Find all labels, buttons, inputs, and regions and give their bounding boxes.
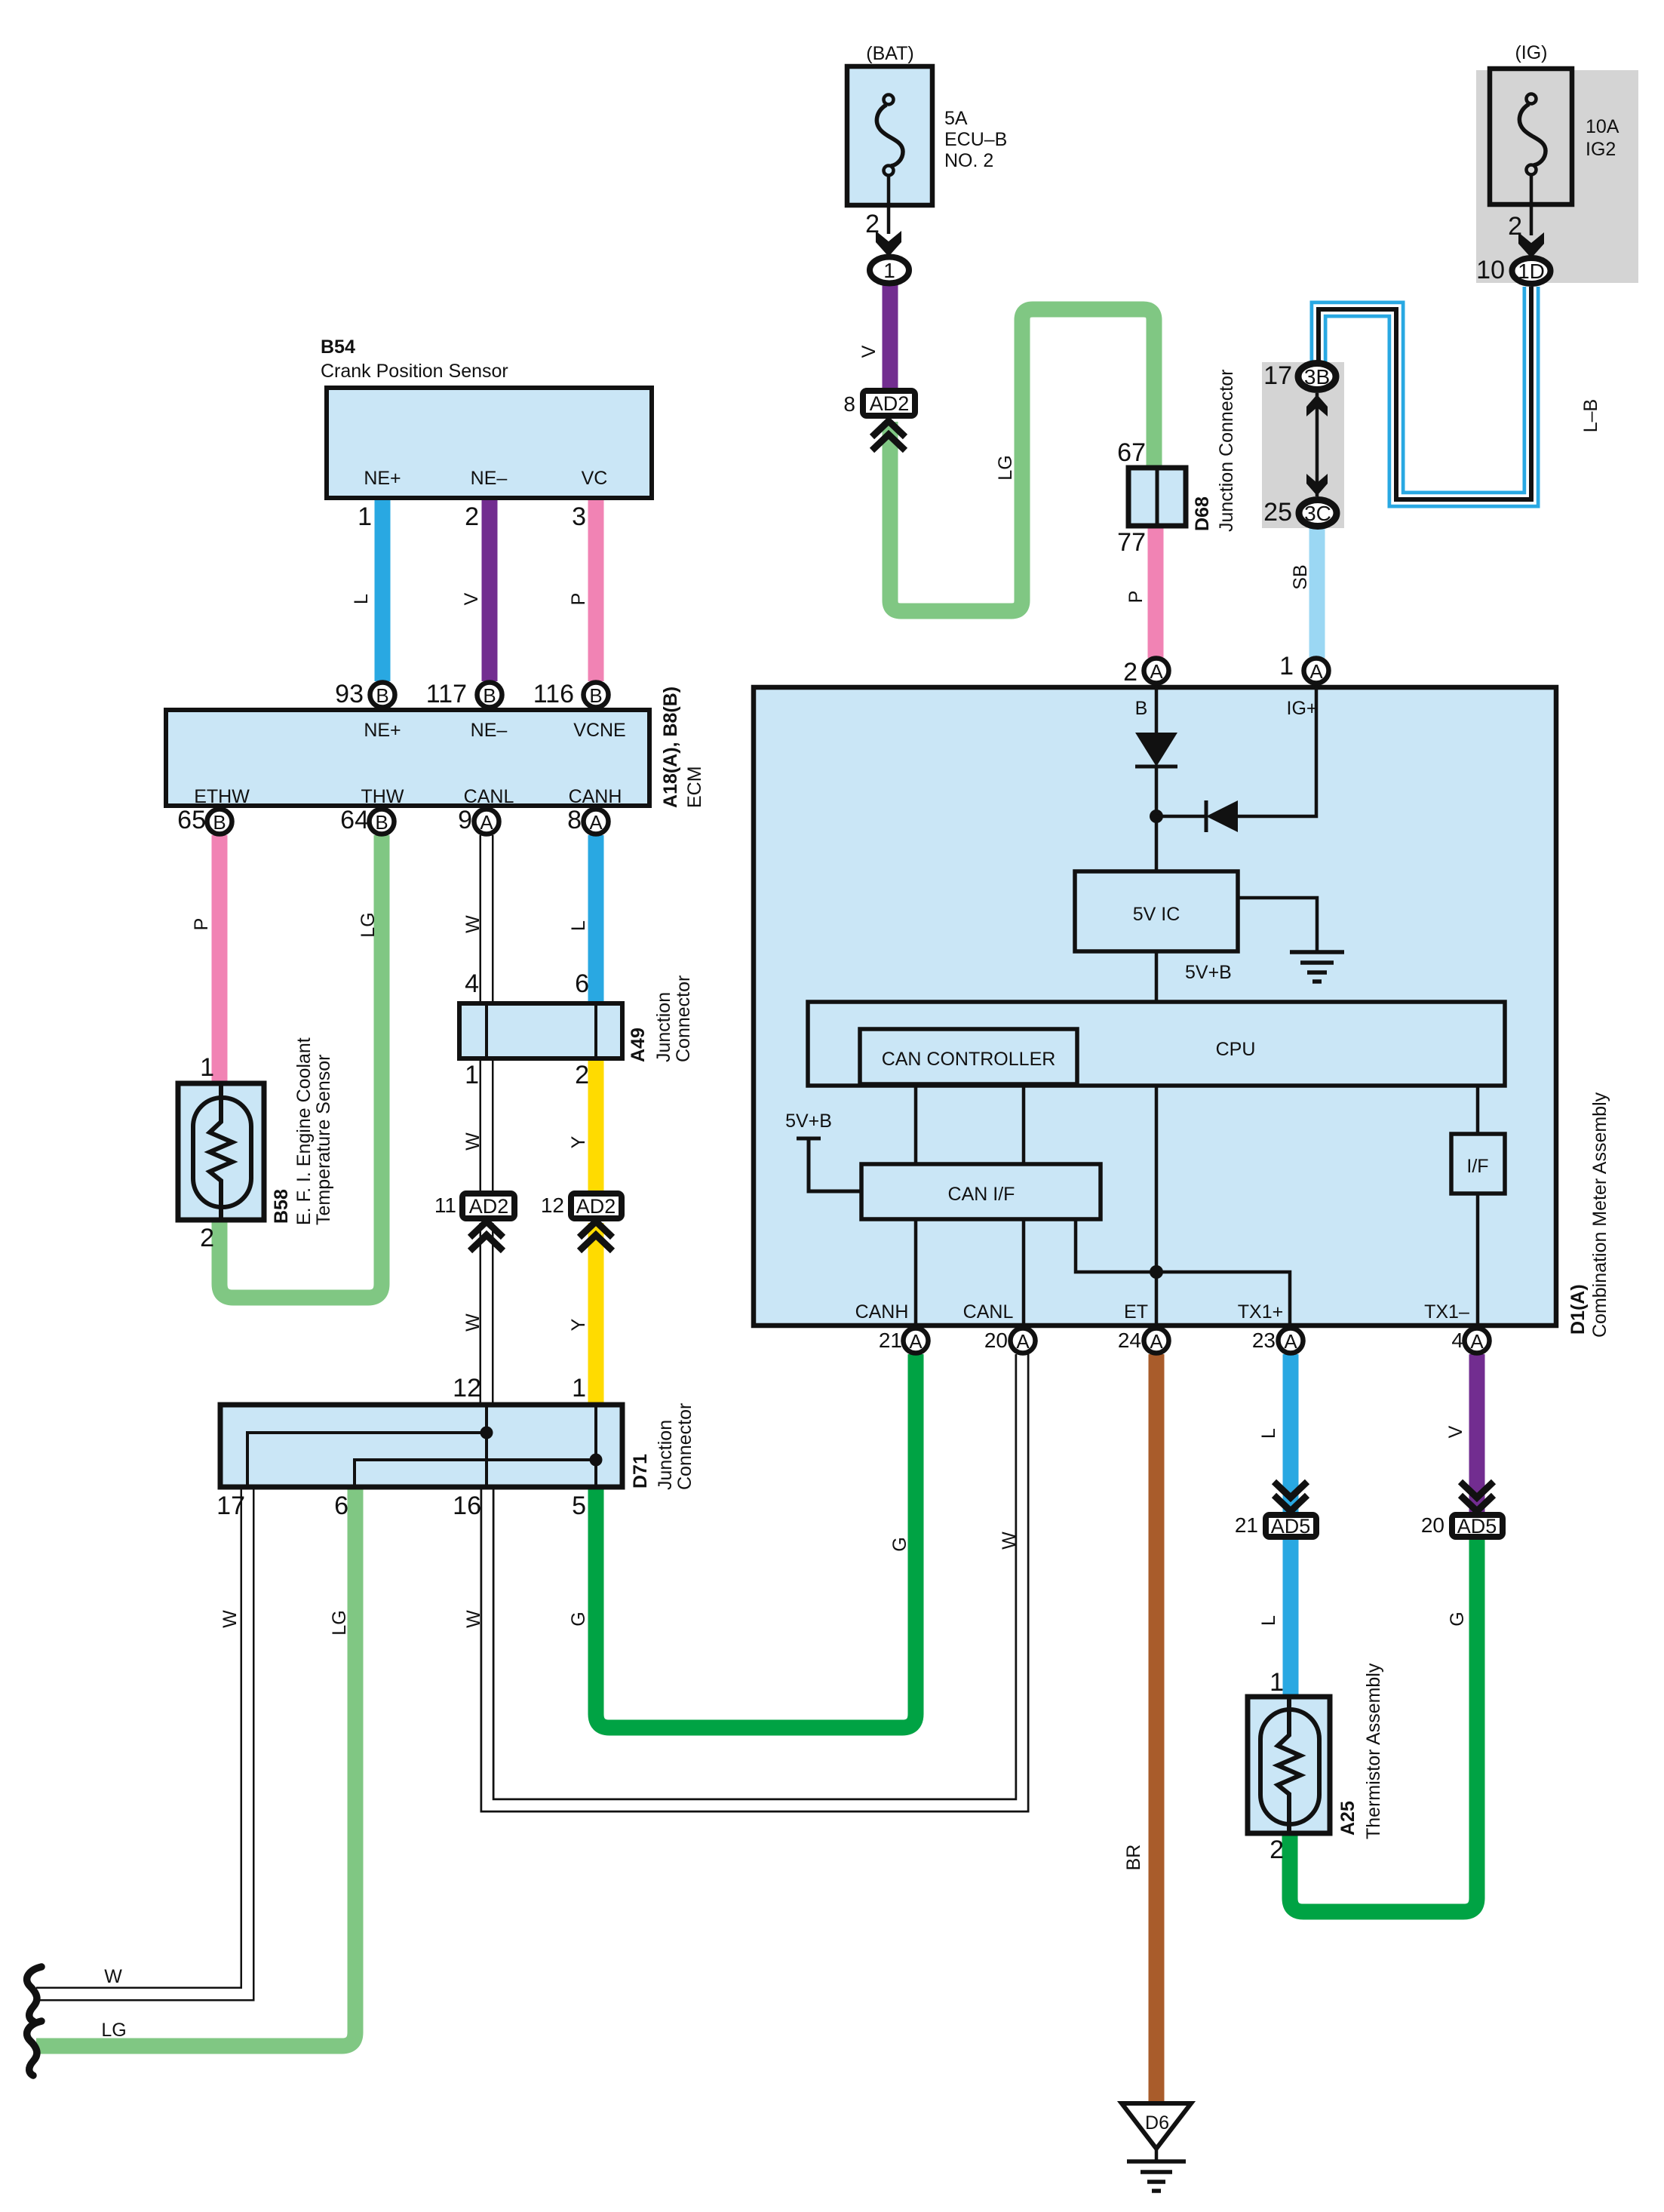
svg-text:A: A [1016,1330,1030,1353]
label W (wire A49-AD2) [462,1132,484,1151]
svg-text:4: 4 [1451,1329,1463,1352]
pin number 8 (AD2) [843,392,855,416]
svg-text:67: 67 [1117,438,1146,467]
wire V B54 pin2 to ECM 117 [482,494,498,681]
svg-text:D6: D6 [1145,2112,1169,2134]
wire W D71 pin17 to break [36,1485,247,1994]
wire W AD2 11 to D71 pin12 [480,1223,494,1406]
pin number 1 (meter IG+) [1279,652,1294,680]
pin number 2 (A25) [1269,1836,1284,1864]
label Combination Meter Assembly [1589,1092,1610,1338]
label Thermistor Assembly [1363,1663,1384,1839]
svg-text:W: W [999,1532,1020,1550]
svg-text:Connector: Connector [674,1403,695,1490]
label P (wire D68 to meter) [1125,591,1147,604]
pin number 10 (1D) [1476,256,1505,284]
wire P B54 pin3 to ECM 116 [588,494,604,681]
wire G D71 pin5 to meter CANH 21 [596,1354,916,1728]
label LG (wire ECM 64) [358,912,379,937]
svg-text:B: B [483,684,496,707]
junction connector D68 [1128,468,1186,526]
svg-text:8: 8 [567,806,582,834]
svg-text:1: 1 [883,259,895,282]
pin numbers B54 [358,502,586,531]
svg-text:CANH: CANH [569,786,622,807]
svg-text:AD5: AD5 [1271,1515,1311,1538]
svg-text:A25: A25 [1337,1801,1359,1836]
svg-text:B: B [589,684,602,707]
label 10A IG2 [1586,116,1619,160]
svg-text:24: 24 [1118,1329,1141,1352]
svg-text:1: 1 [572,1374,586,1402]
wire CANH to pin 21 [914,1219,918,1328]
wire SB 3C to meter pin 1 [1309,528,1325,658]
svg-text:L: L [568,920,589,931]
oval connector 3B [1298,364,1336,390]
junction connector AD2 pin12 [571,1194,622,1218]
ground D6 [1122,2103,1191,2191]
wire ET line [1155,1086,1159,1328]
label D71 [630,1454,651,1488]
wire Y A49 pin2 to AD2 12 [588,1058,604,1192]
svg-text:6: 6 [575,969,589,998]
wire diode to junction [1155,767,1159,871]
label (IG) [1515,42,1547,63]
pin number 1 (B58) [200,1053,214,1082]
svg-text:64: 64 [340,806,369,834]
svg-text:5V+B: 5V+B [785,1111,832,1132]
wire L-B IG fuse to 3B [1319,287,1531,499]
svg-text:V: V [461,592,482,605]
chevron shield mark below AD2 11 [470,1221,503,1251]
pin number 2 (meter B) [1123,658,1137,687]
wire 5V IC to CPU [1155,951,1159,1003]
svg-text:93: 93 [335,680,364,708]
svg-text:P: P [191,918,212,931]
svg-text:V: V [1445,1425,1466,1438]
arrow down toward 3C [1306,474,1328,496]
label SB (wire) [1290,564,1311,589]
label V (wire BAT) [858,345,880,358]
CPU box [808,1002,1505,1086]
pin number 1 (A25) [1269,1668,1284,1697]
junction node dot [1150,810,1163,823]
svg-text:D68: D68 [1192,496,1213,531]
I/F box [1451,1134,1505,1194]
wire CPU to I/F [1476,1086,1480,1134]
label D68 [1192,496,1213,531]
svg-text:AD2: AD2 [469,1195,509,1218]
svg-text:2: 2 [1508,212,1522,241]
svg-text:Y: Y [568,1318,589,1331]
connector circle A 2 (meter top) [1144,659,1169,684]
svg-text:20: 20 [984,1329,1008,1352]
junction connector AD2 pin8 [863,391,915,416]
svg-text:TX1+: TX1+ [1238,1301,1283,1323]
svg-text:17: 17 [1263,361,1292,390]
svg-text:12: 12 [453,1374,481,1402]
svg-text:A: A [1284,1330,1297,1353]
connector circle A 9 [474,810,499,834]
svg-text:Junction: Junction [653,992,674,1062]
label Crank Position Sensor [321,361,508,382]
label ECM [684,766,705,808]
arrow down IG [1518,232,1544,258]
svg-text:W: W [462,1313,484,1332]
svg-text:W: W [463,1610,484,1628]
svg-text:1: 1 [200,1053,214,1082]
connector circle A 8 [584,810,609,834]
B54 Crank Position Sensor box [327,388,652,498]
label P (wire ECM 65) [191,918,212,931]
wire W D71 pin16 to meter CANL 20 [487,1354,1022,1805]
svg-text:AD2: AD2 [576,1195,616,1218]
wire P ECM 65 to B58 pin1 [212,835,228,1085]
svg-text:ECU–B: ECU–B [944,129,1007,150]
svg-text:117: 117 [426,680,467,708]
fuse 5A ECU-B NO.2 (BAT) [847,66,932,205]
oval connector 1 (BAT) [870,257,909,284]
label W (wire D71 16) [463,1610,484,1628]
svg-text:10: 10 [1476,256,1505,284]
wire V meter TX1- 4 to chevron AD5 20 [1469,1354,1485,1513]
pin numbers D71 top [453,1374,586,1402]
svg-text:LG: LG [995,455,1016,480]
thermistor A25 [1248,1697,1330,1833]
wire fuse BAT lead [887,176,891,234]
pin number 17 (3B) [1263,361,1292,390]
svg-text:B: B [376,684,388,707]
label W (wire D71 17) [220,1610,241,1628]
pin number 21 (AD5) [1235,1513,1258,1537]
svg-text:A: A [1150,1330,1163,1353]
svg-text:W: W [220,1610,241,1628]
wire Y AD2 12 to D71 pin1 [588,1223,604,1406]
svg-text:2: 2 [865,210,880,238]
wire diode to node [1156,815,1206,819]
svg-text:Y: Y [568,1135,589,1148]
svg-text:ECM: ECM [684,766,705,808]
svg-text:CAN I/F: CAN I/F [948,1184,1015,1205]
svg-text:CAN CONTROLLER: CAN CONTROLLER [882,1049,1056,1070]
svg-text:B58: B58 [271,1189,292,1224]
chevron shield mark above AD5 20 [1460,1482,1494,1511]
wire LG D71 pin6 to break [36,1485,355,2046]
svg-text:20: 20 [1421,1513,1444,1537]
svg-text:THW: THW [361,786,404,807]
svg-text:Thermistor Assembly: Thermistor Assembly [1363,1663,1384,1839]
pin number 25 (3C) [1263,498,1292,527]
svg-text:1: 1 [1269,1668,1284,1697]
svg-text:1D: 1D [1518,260,1545,283]
pin number 2 (B58) [200,1224,214,1252]
svg-text:3B: 3B [1304,365,1330,389]
svg-text:B: B [375,811,388,834]
pin number 77 (D68) [1117,528,1146,557]
svg-text:TX1–: TX1– [1424,1301,1469,1323]
svg-text:21: 21 [1235,1513,1258,1537]
svg-text:CPU: CPU [1216,1039,1256,1060]
label Junction Connector (D71) [655,1403,695,1490]
svg-text:65: 65 [177,806,206,834]
connector circle B 116 [584,683,609,708]
svg-text:2: 2 [575,1061,589,1089]
chevron shield mark above LG [872,421,905,450]
wire 5V IC to ground [1238,898,1317,951]
svg-text:IG+: IG+ [1287,698,1318,719]
svg-text:VC: VC [582,468,608,489]
connector circle A 21 [904,1329,929,1353]
svg-text:L: L [1258,1615,1279,1626]
connector circle A 4 [1465,1329,1490,1353]
junction connector D71 [220,1405,622,1487]
label G (wire to CANH) [889,1537,910,1551]
svg-text:L: L [1258,1428,1279,1439]
wire 3B to 3C [1316,393,1319,496]
oval connector 1D (IG) [1512,258,1551,284]
pin number 11 (AD2) [434,1194,456,1217]
label W (wire to CANL) [999,1532,1020,1550]
svg-text:LG: LG [358,912,379,937]
wire V fuse ECU-B to AD2 [883,285,898,391]
wire W A49 pin1 to AD2 11 [480,1058,494,1192]
label D1(A) [1567,1284,1589,1335]
svg-text:AD5: AD5 [1457,1515,1497,1538]
junction connector AD5 pin20 [1452,1515,1503,1538]
label A18(A), B8(B) [660,687,681,808]
ECM box A18(A),B8(B) [166,710,649,807]
pin numbers D71 bottom [216,1492,586,1520]
label W (bottom horizontal) [104,1966,122,1987]
svg-text:21: 21 [879,1329,902,1352]
label L (wire TX1+) [1258,1428,1279,1439]
wire break squiggle W [27,1967,41,2021]
svg-text:17: 17 [216,1492,245,1520]
pin number 67 (D68) [1117,438,1146,467]
wire break squiggle LG [27,2021,41,2075]
svg-text:G: G [889,1537,910,1551]
svg-text:2: 2 [1123,658,1137,687]
wire fuse IG lead [1530,175,1534,235]
pin numbers ECM bottom [177,806,582,834]
svg-text:A: A [589,811,603,834]
chevron shield mark below AD2 12 [579,1221,612,1251]
svg-text:P: P [568,593,589,606]
svg-text:Connector: Connector [673,975,694,1062]
label Y (wire AD2-D71) [568,1318,589,1331]
svg-text:A49: A49 [628,1028,649,1062]
connector circle B 64 [370,810,395,834]
svg-text:8: 8 [843,392,855,416]
label L (wire ECM 8) [568,920,589,931]
fuse 10A IG2 (IG) [1490,69,1572,204]
svg-text:B54: B54 [321,336,355,358]
svg-text:CANL: CANL [963,1301,1014,1323]
svg-text:NE–: NE– [471,468,508,489]
arrow up toward 3B [1306,395,1328,416]
svg-text:77: 77 [1117,528,1146,557]
svg-text:5V IC: 5V IC [1133,904,1180,925]
connector circle A 24 [1144,1329,1169,1353]
svg-text:1: 1 [465,1061,479,1089]
wire P D68 to meter pin 2 [1148,524,1164,658]
arrow down BAT [876,231,901,257]
svg-text:W: W [462,1132,484,1151]
svg-text:W: W [104,1966,122,1987]
pin number 12 (AD2) [541,1194,564,1217]
connector circle B 93 [370,683,395,708]
svg-text:1: 1 [1279,652,1294,680]
pin numbers A49 [465,969,589,1089]
svg-text:3C: 3C [1304,502,1331,525]
meter pin labels [785,698,1469,1323]
svg-text:A: A [1470,1330,1484,1353]
wire W ECM 9 to A49 pin4 [480,834,494,1005]
wire LG AD2 to D68 [890,309,1154,611]
svg-text:CANH: CANH [855,1301,909,1323]
svg-text:Crank Position Sensor: Crank Position Sensor [321,361,508,382]
pin numbers ECM top [335,680,574,708]
label B54 [321,336,355,358]
svg-text:W: W [462,915,484,933]
svg-text:NO. 2: NO. 2 [944,150,993,171]
svg-text:Temperature Sensor: Temperature Sensor [313,1054,334,1225]
svg-text:(BAT): (BAT) [866,43,913,64]
svg-text:B: B [1135,698,1148,719]
label LG (wire to D68) [995,455,1016,480]
svg-text:11: 11 [434,1194,456,1217]
svg-text:2: 2 [1269,1836,1284,1864]
diode (B line) [1135,733,1177,767]
svg-text:VCNE: VCNE [573,720,625,741]
svg-text:A: A [480,811,493,834]
wire BR meter ET 24 to ground D6 [1149,1354,1165,2102]
wire LG ECM 64 to B58 pin2 [220,835,382,1298]
svg-text:G: G [1447,1611,1468,1626]
svg-text:AD2: AD2 [870,392,910,415]
wire L AD5 21 to A25 pin1 [1283,1539,1299,1698]
svg-text:5A: 5A [944,108,968,129]
label LG (bottom horizontal) [101,2020,126,2041]
label 5A ECU-B NO.2 [944,108,1007,171]
node B line [1155,683,1159,733]
label L (wire B54) [351,594,372,604]
gray panel junction connector 3B/3C [1262,362,1344,528]
svg-text:Junction Connector: Junction Connector [1216,370,1237,532]
label G (wire D71 5) [568,1611,589,1626]
svg-text:12: 12 [541,1194,564,1217]
wires CAN CONTROLLER to CAN I/F [916,1084,1024,1166]
svg-text:NE+: NE+ [364,468,401,489]
label B58 [271,1189,292,1224]
wire CAN I/F to TX1+ [1076,1219,1290,1328]
svg-text:D71: D71 [630,1454,651,1488]
junction connector AD5 pin21 [1266,1515,1316,1538]
svg-text:BR: BR [1123,1845,1144,1871]
wire I/F to TX1- pin 4 [1476,1194,1480,1328]
svg-text:ETHW: ETHW [194,786,250,807]
connector circle A 23 [1279,1329,1303,1353]
svg-text:IG2: IG2 [1586,139,1616,160]
svg-text:L: L [351,594,372,604]
wire L meter TX1+ 23 to chevron AD5 21 [1283,1354,1299,1513]
svg-text:L–B: L–B [1580,399,1601,432]
svg-text:NE+: NE+ [364,720,401,741]
pin numbers meter bottom [879,1329,1463,1352]
svg-text:1: 1 [358,502,372,531]
svg-text:Junction: Junction [655,1420,676,1490]
svg-text:23: 23 [1252,1329,1276,1352]
junction connector A49 [459,1003,622,1058]
wire CANL to pin 20 [1022,1219,1026,1328]
CAN CONTROLLER box [860,1029,1077,1084]
svg-text:P: P [1125,591,1147,604]
svg-text:3: 3 [572,502,586,531]
sensor B58 EFI engine coolant temperature [178,1083,264,1220]
Combination Meter Assembly box D1(A) [754,687,1556,1326]
label BR (wire ET) [1123,1845,1144,1871]
oval connector 3C [1299,500,1337,527]
svg-text:ET: ET [1124,1301,1148,1323]
gray panel IG [1476,70,1638,283]
label W (wire AD2-D71) [462,1313,484,1332]
label P (wire B54) [568,593,589,606]
svg-text:16: 16 [453,1492,481,1520]
svg-text:V: V [858,345,880,358]
svg-text:E. F. I. Engine Coolant: E. F. I. Engine Coolant [293,1037,315,1225]
connector circle B 117 [477,683,502,708]
label A25 [1337,1801,1359,1836]
svg-text:SB: SB [1290,564,1311,589]
wire L B54 pin1 to ECM 93 [375,494,391,681]
svg-text:A: A [909,1330,923,1353]
svg-text:5: 5 [572,1492,586,1520]
label Junction Connector (D68) [1216,370,1237,532]
svg-text:G: G [568,1611,589,1626]
svg-text:I/F: I/F [1466,1156,1488,1177]
connector circle A 1 (meter top) [1304,659,1329,684]
pin number 2 (BAT fuse) [865,210,880,238]
CAN I/F box [861,1164,1101,1219]
junction connector AD2 pin11 [462,1194,514,1218]
svg-text:9: 9 [458,806,472,834]
pin number 2 (IG fuse) [1508,212,1522,241]
chevron shield mark above AD5 21 [1274,1482,1307,1511]
svg-text:LG: LG [101,2020,126,2041]
connector circle A 20 [1011,1329,1036,1353]
5V+B tap symbol [797,1138,863,1191]
svg-text:(IG): (IG) [1515,42,1547,63]
svg-text:25: 25 [1263,498,1292,527]
label LG (wire D71 6) [329,1610,350,1635]
svg-text:CANL: CANL [464,786,514,807]
svg-text:A: A [1150,660,1163,683]
junction dot ET [1150,1265,1163,1279]
wire L ECM 8 to A49 pin6 [588,835,604,1005]
label V (wire TX1-) [1445,1425,1466,1438]
svg-text:4: 4 [465,969,479,998]
label Junction Connector (A49) [653,975,694,1062]
label L (wire AD5-A25) [1258,1615,1279,1626]
svg-text:B: B [213,811,226,834]
label Y (wire A49-AD2) [568,1135,589,1148]
label (BAT) [866,43,913,64]
wire IG+ line [1238,683,1316,816]
label V (wire B54) [461,592,482,605]
5V IC box [1075,871,1238,951]
label G (wire AD5-A25) [1447,1611,1468,1626]
connector circle B 65 [207,810,232,834]
